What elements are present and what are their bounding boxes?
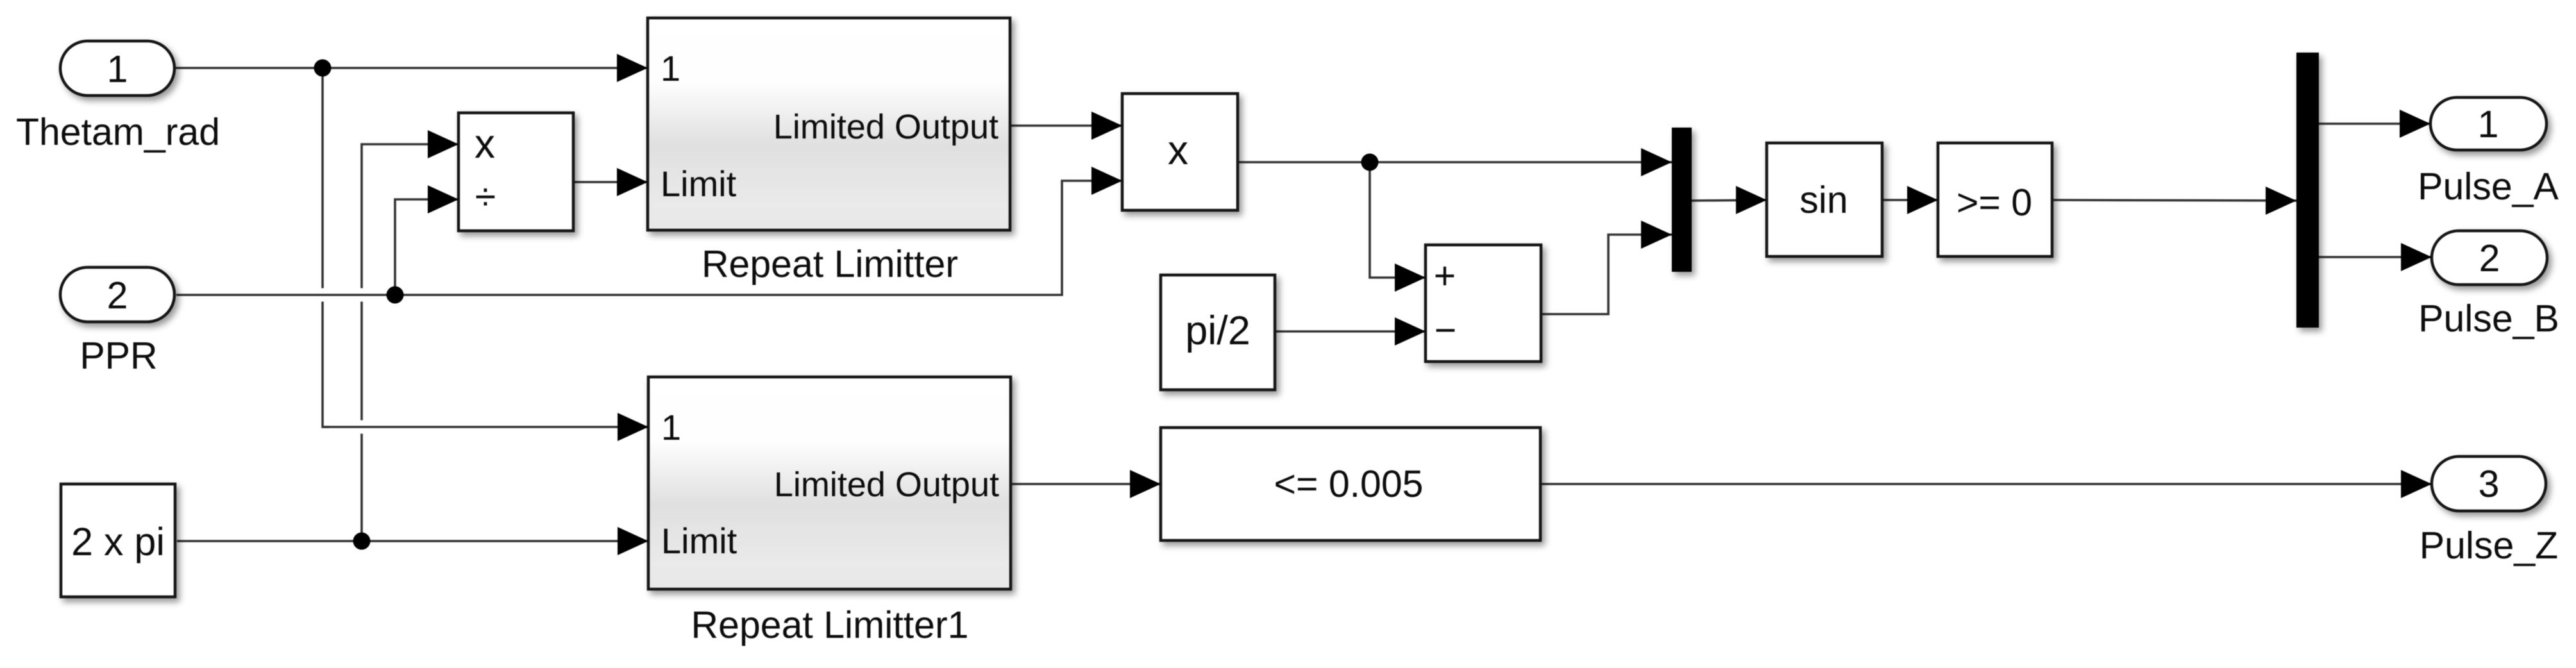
arrowhead into Repeat Limitter Limit input <box>617 168 648 196</box>
wire <box>395 199 459 295</box>
demux <box>2296 53 2319 328</box>
wire <box>2319 122 2430 125</box>
svg-text:x: x <box>1168 127 1188 173</box>
relational operator >= 0 <box>1938 143 2052 256</box>
svg-text:1: 1 <box>661 48 680 88</box>
svg-text:÷: ÷ <box>475 176 496 218</box>
svg-text:Limit: Limit <box>661 521 737 561</box>
node junction <box>353 533 371 550</box>
svg-text:1: 1 <box>107 48 128 90</box>
product/divide block <box>459 113 573 231</box>
svg-text:+: + <box>1434 255 1456 297</box>
svg-text:Pulse_Z: Pulse_Z <box>2420 524 2558 567</box>
subsystem Repeat Limitter <box>648 18 1010 285</box>
svg-text:1: 1 <box>661 407 681 447</box>
arrowhead into demux input <box>2266 187 2296 215</box>
constant 2 x pi <box>61 484 175 597</box>
wire <box>1541 235 1672 314</box>
svg-text:pi/2: pi/2 <box>1185 308 1250 353</box>
wire <box>1692 200 1767 201</box>
arrowhead into compare block input <box>1130 470 1161 498</box>
arrowhead into Repeat Limitter port 1 <box>617 54 648 82</box>
svg-text:sin: sin <box>1799 179 1848 221</box>
arrowhead into product divide input <box>428 185 459 213</box>
node junction <box>1361 154 1379 171</box>
svg-text:Repeat Limitter1: Repeat Limitter1 <box>691 604 969 646</box>
svg-text:Pulse_A: Pulse_A <box>2418 165 2559 208</box>
wire <box>362 144 459 541</box>
arrowhead into mux input 2 <box>1641 221 1672 249</box>
wire <box>177 540 648 542</box>
svg-text:Limited Output: Limited Output <box>773 108 998 146</box>
wire <box>573 181 648 183</box>
svg-text:<= 0.005: <= 0.005 <box>1274 463 1424 505</box>
arrowhead into product x top input <box>1091 112 1122 140</box>
wire <box>170 181 1122 295</box>
sin block <box>1767 143 1882 256</box>
product block x <box>1122 94 1238 210</box>
svg-text:Thetam_rad: Thetam_rad <box>16 111 220 153</box>
wire <box>1010 124 1122 127</box>
wire <box>1540 483 2432 485</box>
wire <box>2052 200 2296 201</box>
wire <box>2319 256 2432 258</box>
svg-text:2: 2 <box>2479 237 2500 280</box>
wire <box>1275 330 1426 333</box>
outport 1 Pulse_A <box>2418 97 2559 208</box>
inport 1 Thetam_rad <box>16 41 220 153</box>
arrowhead into outport 3 <box>2401 470 2432 498</box>
arrowhead into sum plus input <box>1395 263 1426 292</box>
arrowhead into mux input 1 <box>1641 148 1672 176</box>
svg-text:1: 1 <box>2478 103 2499 146</box>
svg-text:x: x <box>475 121 495 167</box>
outport 2 Pulse_B <box>2418 231 2559 340</box>
arrowhead into sin input <box>1736 186 1767 214</box>
arrowhead into product x input <box>428 130 459 158</box>
compare block <= 0.005 <box>1161 428 1540 540</box>
svg-text:−: − <box>1435 309 1456 351</box>
svg-text:Repeat Limitter: Repeat Limitter <box>702 243 958 285</box>
svg-text:3: 3 <box>2479 463 2500 505</box>
node junction <box>314 60 332 77</box>
svg-text:2 x pi: 2 x pi <box>71 520 165 564</box>
inport 2 PPR <box>60 267 174 377</box>
svg-text:PPR: PPR <box>80 335 157 377</box>
wire <box>323 421 648 434</box>
wire <box>323 68 648 427</box>
arrowhead into Repeat Limitter1 port 1 <box>618 413 648 441</box>
outport 3 Pulse_Z <box>2420 456 2558 567</box>
sum block <box>1426 245 1541 362</box>
svg-text:>= 0: >= 0 <box>1957 181 2032 224</box>
arrowhead into outport 2 <box>2401 243 2432 271</box>
arrowhead into sum minus input <box>1395 317 1426 346</box>
wire <box>174 67 648 69</box>
wire <box>1011 483 1161 485</box>
subsystem Repeat Limitter1 <box>648 377 1011 646</box>
arrowhead into relational operator input <box>1907 186 1938 214</box>
arrowhead into Repeat Limitter1 Limit input <box>618 527 648 555</box>
arrowhead into product x bottom input <box>1091 167 1122 195</box>
wire <box>1882 199 1938 201</box>
node junction <box>387 287 404 304</box>
constant pi/2 <box>1161 275 1275 390</box>
mux <box>1672 128 1692 272</box>
svg-text:2: 2 <box>107 274 128 317</box>
svg-text:Limit: Limit <box>661 163 737 204</box>
wire <box>1238 161 1672 163</box>
arrowhead into outport 1 <box>2400 110 2430 138</box>
svg-text:Pulse_B: Pulse_B <box>2418 297 2559 340</box>
wire <box>1370 162 1426 278</box>
svg-text:Limited Output: Limited Output <box>774 465 999 504</box>
